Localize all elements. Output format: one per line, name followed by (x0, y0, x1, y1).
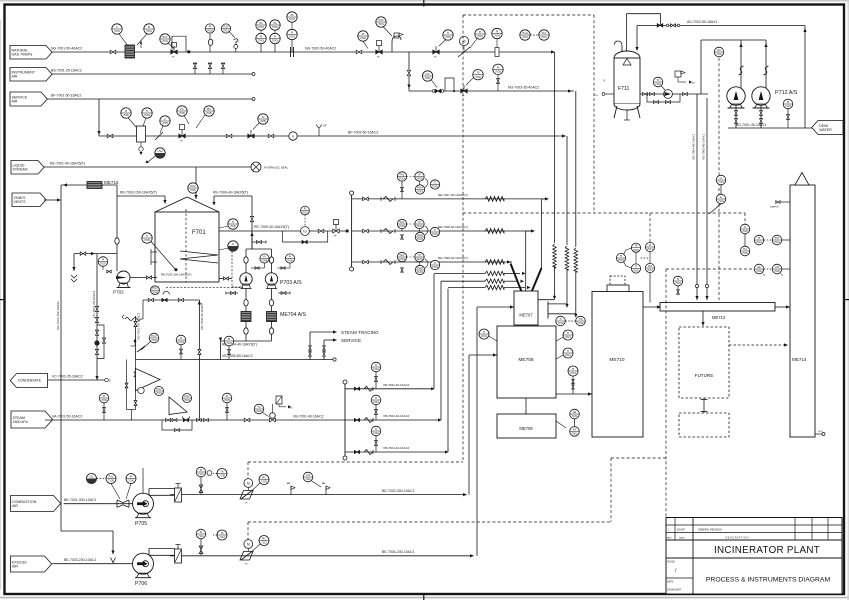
svg-text:PAH: PAH (417, 233, 422, 237)
svg-text:AIR: AIR (12, 99, 18, 103)
svg-text:FIC: FIC (426, 72, 430, 76)
svg-text:7112: 7112 (219, 535, 225, 539)
svg-text:7002: 7002 (425, 76, 431, 80)
svg-text:PAL: PAL (400, 253, 405, 257)
svg-text:70XX: 70XX (432, 185, 439, 189)
svg-text:AIT: AIT (572, 427, 576, 431)
svg-text:1/4″: 1/4″ (323, 124, 328, 128)
svg-text:7050: 7050 (207, 29, 213, 33)
svg-text:F701: F701 (192, 230, 206, 236)
svg-text:HYDRAULIC SEAL: HYDRAULIC SEAL (264, 165, 289, 169)
svg-text:AD-7004-40-16AX1: AD-7004-40-16AX1 (692, 133, 696, 160)
svg-text:LSH: LSH (157, 149, 162, 153)
svg-text:PROCESS & INSTRUMENTS DIAGR: PROCESS & INSTRUMENTS DIAGRAM (706, 577, 831, 584)
svg-text:RE-7006-40-16AX5(T): RE-7006-40-16AX5(T) (213, 191, 248, 195)
svg-text:P706: P706 (135, 581, 147, 587)
svg-text:7001: 7001 (114, 29, 120, 33)
svg-text:7002: 7002 (475, 75, 481, 79)
svg-text:704X: 704X (373, 367, 379, 371)
svg-text:7015: 7015 (633, 248, 639, 252)
svg-text:PI: PI (274, 35, 277, 39)
svg-text:PI: PI (291, 31, 294, 35)
svg-text:TV: TV (656, 78, 660, 82)
svg-text:7014: 7014 (570, 371, 576, 375)
svg-text:TI: TI (434, 228, 437, 232)
svg-text:TI: TI (232, 220, 235, 224)
svg-text:PI: PI (787, 100, 790, 104)
svg-text:7035: 7035 (224, 398, 230, 402)
svg-text:DATE: DATE (679, 537, 685, 540)
svg-text:7111: 7111 (198, 534, 204, 538)
svg-text:VB-7004-40-16AC2: VB-7004-40-16AC2 (383, 446, 410, 450)
svg-text:BS-7001-25-16AC3: BS-7001-25-16AC3 (51, 69, 82, 73)
svg-text:AE: AE (322, 482, 326, 485)
svg-text:PSV: PSV (156, 387, 161, 391)
svg-text:BE-7001-300-10AC1: BE-7001-300-10AC1 (64, 498, 97, 502)
svg-text:FI: FI (292, 135, 295, 139)
svg-text:70XX: 70XX (399, 257, 406, 261)
svg-text:TIA: TIA (743, 247, 747, 251)
svg-text:PI: PI (125, 109, 128, 113)
svg-text:AD-7005-40-16AX1: AD-7005-40-16AX1 (702, 133, 706, 160)
svg-text:FI: FI (479, 30, 482, 34)
svg-text:VB-7003-40-16AC2: VB-7003-40-16AC2 (383, 414, 410, 418)
svg-text:PA: PA (290, 13, 294, 17)
svg-text:RE-7002-150-16AX5(T): RE-7002-150-16AX5(T) (161, 273, 192, 277)
svg-text:ME715: ME715 (104, 180, 119, 185)
svg-text:AIR: AIR (12, 75, 18, 79)
svg-text:TE: TE (634, 244, 638, 248)
svg-text:PI: PI (228, 337, 231, 341)
svg-text:PIC: PIC (207, 107, 211, 111)
svg-text:7102: 7102 (655, 82, 661, 86)
svg-text:PCV: PCV (162, 35, 168, 39)
svg-text:PI: PI (758, 236, 761, 240)
svg-text:7108: 7108 (219, 474, 225, 478)
svg-text:RE-7008-40-16AX5(T): RE-7008-40-16AX5(T) (438, 225, 468, 229)
svg-text:PI: PI (200, 530, 203, 534)
svg-text:7001: 7001 (162, 39, 168, 43)
svg-text:SERVICE: SERVICE (341, 338, 361, 343)
svg-text:7113: 7113 (261, 541, 267, 545)
svg-text:7005: 7005 (495, 70, 501, 74)
svg-text:704X: 704X (373, 400, 379, 404)
svg-text:7036: 7036 (256, 409, 262, 413)
svg-text:7032: 7032 (151, 338, 157, 342)
svg-text:BF-7001-50-16AC2: BF-7001-50-16AC2 (51, 94, 81, 98)
svg-text:7017: 7017 (647, 247, 653, 251)
svg-text:RE-7009-40-16AX5(T): RE-7009-40-16AX5(T) (438, 256, 468, 260)
svg-text:TI: TI (635, 265, 638, 269)
svg-text:70XX: 70XX (399, 224, 406, 228)
svg-text:7051: 7051 (223, 29, 229, 33)
svg-text:TV: TV (257, 405, 261, 409)
svg-text:7017: 7017 (647, 268, 653, 272)
svg-text:7031: 7031 (156, 391, 162, 395)
svg-text:24/06/1997: 24/06/1997 (667, 588, 681, 592)
svg-text:7030: 7030 (101, 398, 107, 402)
svg-text:PAL: PAL (400, 173, 405, 177)
svg-text:7016: 7016 (633, 269, 639, 273)
svg-text:AIT: AIT (306, 473, 310, 477)
svg-text:7020: 7020 (742, 229, 748, 233)
svg-text:GENERAL REVISION: GENERAL REVISION (698, 529, 722, 532)
svg-text:RE-7007-40-16AX5(T): RE-7007-40-16AX5(T) (438, 193, 468, 197)
svg-text:70XX: 70XX (432, 265, 439, 269)
svg-text:TIA: TIA (578, 317, 582, 321)
svg-text:FUTURE: FUTURE (695, 373, 714, 378)
svg-text:BF-7002-50-16AC2: BF-7002-50-16AC2 (348, 131, 378, 135)
svg-text:LT: LT (720, 176, 723, 180)
svg-text:PCV: PCV (151, 334, 157, 338)
svg-text:P712 A/S: P712 A/S (775, 90, 798, 96)
svg-text:SG-7001-150-16AX1: SG-7001-150-16AX1 (56, 301, 60, 330)
svg-text:PIC: PIC (262, 537, 266, 541)
svg-text:7002: 7002 (774, 269, 780, 273)
svg-text:7106: 7106 (128, 479, 134, 483)
svg-text:70XX: 70XX (417, 270, 424, 274)
svg-text:PSV: PSV (223, 25, 228, 29)
svg-text:PIA: PIA (775, 236, 779, 240)
svg-text:70XX: 70XX (272, 25, 279, 29)
svg-text:PAH: PAH (522, 31, 527, 35)
svg-text:7004: 7004 (144, 113, 150, 117)
svg-text:7005: 7005 (260, 119, 266, 123)
svg-text:FI: FI (304, 207, 307, 211)
svg-text:PI: PI (200, 468, 203, 472)
svg-text:TI: TI (483, 330, 486, 334)
svg-text:RE-7005-40-16AX5(T): RE-7005-40-16AX5(T) (254, 225, 289, 229)
svg-text:PI: PI (496, 30, 499, 34)
svg-text:PIC: PIC (262, 476, 266, 480)
svg-text:PA: PA (259, 21, 263, 25)
svg-text:PI: PI (362, 32, 365, 36)
svg-text:PI: PI (226, 394, 229, 398)
svg-text:AIR: AIR (12, 564, 18, 568)
svg-text:PAH: PAH (417, 266, 422, 270)
svg-text:RE-7003-150-16AX5(T): RE-7003-150-16AX5(T) (120, 191, 157, 195)
svg-text:AD-7001-40-16AX1: AD-7001-40-16AX1 (736, 123, 767, 127)
svg-text:TI: TI (434, 261, 437, 265)
svg-text:7008: 7008 (262, 259, 268, 263)
svg-text:PI: PI (497, 65, 500, 69)
svg-text:PI: PI (572, 367, 575, 371)
svg-text:7003: 7003 (445, 35, 451, 39)
svg-text:PV: PV (180, 107, 184, 111)
svg-text:TI: TI (744, 225, 747, 229)
svg-text:7021: 7021 (774, 240, 780, 244)
svg-text:7009: 7009 (287, 259, 293, 263)
svg-text:70XX: 70XX (258, 25, 265, 29)
svg-text:F711: F711 (618, 86, 630, 92)
svg-text:PSV: PSV (184, 394, 189, 398)
svg-text:LI: LI (232, 242, 234, 246)
svg-text:ME708: ME708 (518, 357, 534, 363)
svg-text:7007: 7007 (100, 262, 106, 266)
svg-text:ME713: ME713 (712, 315, 726, 320)
svg-text:7002: 7002 (756, 269, 762, 273)
svg-text:ME710: ME710 (609, 357, 625, 363)
svg-text:70XX: 70XX (417, 237, 424, 241)
svg-text:PI: PI (263, 255, 266, 259)
svg-text:TI: TI (146, 109, 149, 113)
svg-text:TI: TI (559, 317, 562, 321)
svg-text:VB-7005-50-16AC2: VB-7005-50-16AC2 (222, 354, 253, 358)
svg-text:CONDENSATE: CONDENSATE (18, 379, 42, 383)
svg-text:TI: TI (434, 181, 437, 185)
svg-text:7033: 7033 (178, 340, 184, 344)
svg-text:7001: 7001 (572, 432, 578, 436)
svg-text:ME707: ME707 (519, 313, 533, 318)
svg-text:M: M (247, 543, 250, 547)
svg-text:PI: PI (649, 243, 652, 247)
svg-text:704X: 704X (373, 431, 379, 435)
svg-text:ME709: ME709 (519, 426, 533, 431)
svg-text:7011: 7011 (565, 335, 571, 339)
svg-text:70XX: 70XX (258, 39, 265, 43)
svg-text:7006: 7006 (230, 224, 236, 228)
svg-text:AIR: AIR (12, 504, 18, 508)
svg-text:BE-7004-200-10AC1: BE-7004-200-10AC1 (382, 550, 415, 554)
svg-text:M: M (247, 482, 250, 486)
svg-text:7004: 7004 (494, 34, 500, 38)
svg-text:7021: 7021 (756, 240, 762, 244)
svg-text:PI: PI (418, 253, 421, 257)
svg-text:GAS 700kPa: GAS 700kPa (12, 53, 33, 57)
svg-text:7034: 7034 (184, 398, 190, 402)
svg-text:PI: PI (289, 255, 292, 259)
svg-text:PI: PI (130, 475, 133, 479)
svg-text:TV: TV (261, 115, 265, 119)
svg-text:70XX: 70XX (399, 177, 406, 181)
svg-text:WATER: WATER (819, 128, 832, 132)
svg-text:TI: TI (375, 396, 378, 400)
svg-text:7013: 7013 (481, 334, 487, 338)
svg-text:PI: PI (260, 35, 263, 39)
svg-text:70XX: 70XX (416, 257, 423, 261)
svg-text:7001: 7001 (146, 29, 152, 33)
svg-text:STREAM: STREAM (13, 168, 28, 172)
svg-text:PIA: PIA (648, 264, 652, 268)
svg-text:7012: 7012 (565, 353, 571, 357)
svg-text:70XX: 70XX (416, 177, 423, 181)
svg-text:SAMPLE: SAMPLE (770, 206, 779, 209)
svg-text:AE: AE (757, 265, 761, 269)
svg-text:AIT: AIT (775, 265, 779, 269)
svg-text:7109: 7109 (261, 480, 267, 484)
svg-text:VC-7001-25-16AC2: VC-7001-25-16AC2 (92, 291, 96, 318)
svg-text:7005: 7005 (144, 238, 150, 242)
svg-text:70XX: 70XX (289, 17, 296, 21)
svg-text:7002: 7002 (190, 188, 196, 192)
svg-text:AE: AE (287, 482, 291, 485)
svg-text:STEAM TRACING: STEAM TRACING (341, 330, 379, 335)
svg-text:HCX: HCX (818, 431, 823, 433)
svg-text:P703 A/S: P703 A/S (280, 280, 302, 286)
svg-text:ME714: ME714 (792, 357, 807, 362)
svg-text:TI: TI (146, 234, 149, 238)
svg-text:PAL: PAL (400, 220, 405, 224)
svg-text:ICH: ICH (594, 95, 598, 97)
svg-text:PI: PI (180, 336, 183, 340)
svg-text:7006: 7006 (123, 113, 129, 117)
svg-text:7001: 7001 (522, 35, 528, 39)
svg-text:D: D (109, 379, 111, 383)
svg-text:7040: 7040 (152, 290, 158, 294)
svg-text:PSL: PSL (109, 475, 114, 479)
svg-text:7110: 7110 (305, 477, 311, 481)
svg-text:LIC: LIC (717, 48, 721, 52)
svg-text:ME704 A/S: ME704 A/S (280, 312, 306, 318)
svg-text:7107: 7107 (198, 472, 204, 476)
svg-text:7001: 7001 (541, 35, 547, 39)
svg-text:PSV: PSV (378, 18, 383, 22)
svg-text:70XX: 70XX (416, 224, 423, 228)
svg-text:TI: TI (375, 427, 378, 431)
svg-text:PI: PI (418, 220, 421, 224)
svg-text:NG-7001-50-40AC2: NG-7001-50-40AC2 (51, 47, 82, 51)
svg-text:FQI: FQI (303, 231, 307, 234)
svg-text:7101: 7101 (718, 180, 724, 184)
svg-text:7034: 7034 (226, 341, 232, 345)
svg-text:RE-7001-40-16AX5(T): RE-7001-40-16AX5(T) (50, 162, 85, 166)
svg-text:BE-7002-300-10AC1: BE-7002-300-10AC1 (382, 489, 415, 493)
svg-text:DATE: DATE (667, 581, 674, 584)
svg-text:NG-7003-35-40AC2: NG-7003-35-40AC2 (508, 86, 539, 90)
svg-text:VB-7002-40-16AC2: VB-7002-40-16AC2 (383, 383, 410, 387)
svg-text:VENTS: VENTS (14, 200, 27, 204)
svg-text:P702: P702 (113, 290, 124, 295)
svg-text:SCALE: SCALE (667, 561, 675, 564)
svg-text:7001: 7001 (477, 34, 483, 38)
svg-text:70XX: 70XX (432, 232, 439, 236)
svg-text:70XX: 70XX (272, 39, 279, 43)
svg-text:PA: PA (273, 21, 277, 25)
svg-text:AE: AE (573, 410, 577, 414)
svg-text:PI: PI (209, 25, 212, 29)
svg-text:7010: 7010 (578, 321, 584, 325)
svg-text:TI: TI (620, 254, 623, 258)
svg-text:PSV: PSV (190, 184, 195, 188)
svg-text:7001: 7001 (572, 414, 578, 418)
svg-text:TV: TV (476, 71, 480, 75)
svg-text:7015: 7015 (618, 258, 624, 262)
svg-text:PI: PI (418, 173, 421, 177)
svg-text:VA-7001-50-16AC2: VA-7001-50-16AC2 (52, 415, 82, 419)
svg-text:LSL: LSL (89, 475, 94, 479)
svg-text:7020: 7020 (742, 251, 748, 255)
svg-text:PAL: PAL (542, 31, 547, 35)
svg-text:D E S C R I P T I O N: D E S C R I P T I O N (726, 537, 749, 540)
svg-text:TA: TA (220, 470, 223, 474)
svg-text:7001: 7001 (378, 22, 384, 26)
svg-text:P705: P705 (135, 521, 147, 527)
svg-text:7002: 7002 (360, 36, 366, 40)
svg-text:TI: TI (567, 349, 570, 353)
svg-text:7010: 7010 (302, 211, 308, 215)
svg-text:PI: PI (677, 277, 680, 281)
svg-text:70XX: 70XX (417, 190, 424, 194)
svg-text:1800 kPa: 1800 kPa (13, 420, 28, 424)
svg-text:PI: PI (102, 258, 105, 262)
svg-text:INCINERATOR PLANT: INCINERATOR PLANT (714, 545, 820, 556)
svg-text:PSV: PSV (152, 286, 157, 290)
svg-text:VC-7002-25-16AC2: VC-7002-25-16AC2 (52, 375, 83, 379)
svg-text:7103: 7103 (785, 104, 791, 108)
svg-text:VB-7006-40-16AC2: VB-7006-40-16AC2 (200, 303, 204, 330)
svg-text:PI: PI (103, 394, 106, 398)
svg-text:70XX: 70XX (289, 35, 296, 39)
svg-text:VD-7001-25-16AC2: VD-7001-25-16AC2 (137, 313, 141, 340)
svg-text:BE-7003-200-10AC1: BE-7003-200-10AC1 (64, 558, 97, 562)
svg-text:LI: LI (720, 195, 722, 199)
svg-text:7101: 7101 (716, 52, 722, 56)
svg-text:6/10/97: 6/10/97 (677, 529, 686, 532)
svg-text:TA: TA (220, 531, 223, 535)
svg-text:TI: TI (447, 31, 450, 35)
svg-text:PAH: PAH (417, 186, 422, 190)
svg-text:NG-7002-50-40AC2: NG-7002-50-40AC2 (305, 47, 336, 51)
svg-text:7006: 7006 (206, 111, 212, 115)
svg-text:TI: TI (375, 363, 378, 367)
svg-text:7003: 7003 (162, 121, 168, 125)
svg-text:PI: PI (148, 25, 151, 29)
svg-text:VB-7001-40-16AC2: VB-7001-40-16AC2 (293, 415, 324, 419)
svg-text:7022: 7022 (675, 281, 681, 285)
svg-text:7006: 7006 (179, 111, 185, 115)
svg-text:AD-7002-50-16AX1: AD-7002-50-16AX1 (687, 20, 718, 24)
svg-text:7105: 7105 (108, 479, 114, 483)
svg-text:REV: REV (667, 538, 672, 540)
svg-text:7101: 7101 (718, 199, 724, 203)
svg-text:TI: TI (567, 331, 570, 335)
svg-text:7010: 7010 (558, 321, 564, 325)
